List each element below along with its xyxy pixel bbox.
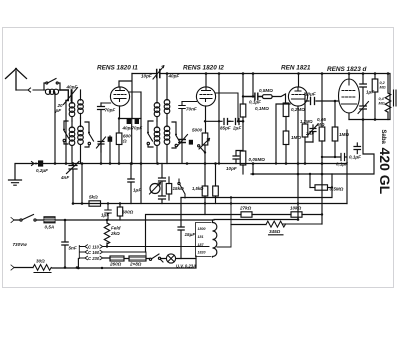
- coil L4a IF primary top: [147, 74, 181, 164]
- resistor R0.05M det: [240, 151, 246, 165]
- capacitor C70pF2: [135, 119, 139, 125]
- transformer T1 winding: [213, 220, 217, 257]
- svg-text:10μF: 10μF: [305, 92, 316, 97]
- svg-text:40pF: 40pF: [66, 84, 78, 89]
- resistor R0.05M screen: [319, 127, 325, 141]
- svg-text:1,5kΩ: 1,5kΩ: [192, 186, 204, 191]
- capacitor C15uF: [178, 227, 184, 259]
- capacitor C10pF: [233, 151, 243, 164]
- svg-text:10pF: 10pF: [226, 166, 237, 171]
- wire lower mid bus right: [181, 174, 332, 198]
- resistor R0.1M det: [240, 104, 246, 117]
- voltage selector: [79, 245, 102, 260]
- svg-text:345Ω: 345Ω: [269, 229, 281, 234]
- potentiometer P5000: [202, 133, 208, 145]
- switch S1 antenna: [44, 79, 60, 91]
- speaker bars: [394, 90, 397, 106]
- resistor R1M 2: [334, 101, 336, 127]
- wire tube3 grid chain: [276, 74, 299, 164]
- resistor Rk1: [204, 164, 206, 187]
- svg-text:1,2MΩ: 1,2MΩ: [300, 119, 313, 124]
- svg-text:2×8Ω: 2×8Ω: [129, 262, 142, 267]
- wire coupling row: [305, 93, 339, 101]
- svg-text:0,1μF: 0,1μF: [336, 162, 348, 167]
- svg-text:0,4: 0,4: [379, 97, 385, 101]
- resistor R600: [116, 133, 122, 145]
- svg-text:0,2: 0,2: [380, 81, 386, 85]
- wire tube2 screen column: [55, 72, 220, 165]
- resistor R0.2M out: [374, 74, 376, 80]
- svg-text:0,5MΩ: 0,5MΩ: [330, 187, 344, 192]
- switch S6 tone: [179, 179, 185, 198]
- svg-text:5000: 5000: [192, 128, 203, 133]
- capacitor 20pF trimmer: [60, 90, 72, 103]
- wire mid right bus: [251, 120, 374, 175]
- resistor R2x8 heater: [129, 256, 146, 261]
- svg-text:1μF: 1μF: [133, 188, 141, 193]
- wire AVC column: [252, 164, 254, 175]
- wire mains top: [14, 219, 298, 222]
- svg-text:0,2μF: 0,2μF: [36, 168, 48, 173]
- wire mains connector top: [11, 218, 14, 223]
- svg-text:1820: 1820: [198, 251, 206, 255]
- transformer T1 labels box: [196, 223, 212, 257]
- svg-text:730Vw: 730Vw: [13, 242, 28, 247]
- svg-text:1800: 1800: [198, 227, 206, 231]
- svg-text:REN 1821: REN 1821: [281, 65, 311, 72]
- wire mains connector bottom: [11, 265, 14, 270]
- svg-text:0,1MΩ: 0,1MΩ: [255, 106, 269, 111]
- junction dots main bus: [54, 72, 307, 269]
- tube U2 RENS1820 II: [196, 87, 215, 106]
- svg-text:260Ω: 260Ω: [109, 262, 122, 267]
- capacitor C1uF afilter: [128, 164, 134, 204]
- wire col181: [180, 198, 182, 228]
- svg-text:0,1μF: 0,1μF: [349, 155, 361, 160]
- capacitor C2uF: [236, 119, 242, 125]
- svg-text:5nF: 5nF: [69, 246, 77, 251]
- resistor R1.2M: [304, 101, 306, 124]
- coil L2b primary bottom: [71, 121, 73, 164]
- capacitor C0.2uF: [38, 160, 43, 166]
- svg-text:85pF: 85pF: [220, 126, 231, 131]
- svg-text:MΩ: MΩ: [380, 86, 386, 90]
- coil L5a IF secondary top: [166, 74, 168, 119]
- svg-text:2μF: 2μF: [232, 126, 241, 131]
- lamp UV: [166, 254, 175, 263]
- svg-text:27kΩ: 27kΩ: [239, 206, 252, 211]
- svg-text:0,5A: 0,5A: [45, 225, 55, 230]
- wire tube1 screen column: [131, 119, 133, 164]
- wire tube1 cathode column: [118, 106, 121, 132]
- fuse F0.5A: [44, 217, 55, 223]
- wire B+ resistor row: [146, 174, 323, 252]
- svg-text:Saba: Saba: [380, 130, 386, 145]
- tube U1 RENS1820 I: [101, 79, 360, 121]
- wire tube4 cathode: [348, 113, 350, 120]
- svg-text:1MΩ: 1MΩ: [291, 135, 301, 140]
- scan page border: [3, 28, 394, 288]
- capacitor C2nF var: [308, 124, 318, 142]
- wire choke row: [231, 224, 266, 226]
- svg-text:30Ω: 30Ω: [36, 259, 45, 264]
- coil L2a RF transformer primary top: [63, 90, 94, 164]
- node det bus: [242, 72, 245, 75]
- resistor R27k: [241, 212, 252, 217]
- svg-text:C 230: C 230: [88, 256, 100, 261]
- coil L3b secondary bottom: [80, 118, 82, 164]
- wire col141 top: [140, 92, 142, 164]
- wire tube2 grid lead: [205, 74, 207, 88]
- svg-text:1MΩ: 1MΩ: [339, 132, 349, 137]
- wire trimmer down: [65, 101, 67, 164]
- capacitor C0.1uF k: [322, 130, 347, 204]
- labels: [97, 65, 368, 74]
- tone control pot: [150, 184, 160, 194]
- svg-text:C 160: C 160: [88, 250, 100, 255]
- capacitor C1uF out: [360, 74, 367, 120]
- svg-text:420 GL: 420 GL: [377, 148, 393, 195]
- wire main ground bus: [16, 163, 347, 165]
- svg-text:pF: pF: [55, 108, 62, 113]
- switch S3 band right: [85, 122, 94, 147]
- svg-text:15kΩ: 15kΩ: [173, 186, 185, 191]
- capacitor C1uF ps: [105, 204, 111, 221]
- capacitor C5nF mains: [62, 220, 68, 268]
- resistor R10k2: [291, 212, 302, 217]
- resistor R5k: [89, 201, 101, 206]
- svg-text:181: 181: [198, 235, 204, 239]
- capacitor C var padder: [97, 137, 106, 152]
- resistor R30 zigzag mains: [33, 265, 51, 273]
- svg-text:RENS 1820 I1: RENS 1820 I1: [97, 65, 138, 72]
- capacitor Ctone2: [159, 196, 166, 204]
- svg-text:MΩ: MΩ: [379, 102, 385, 106]
- svg-text:2nF: 2nF: [305, 131, 314, 136]
- svg-text:5kΩ: 5kΩ: [89, 195, 98, 200]
- capacitor Ctone1: [159, 164, 166, 196]
- capacitor C70pF grid1: [98, 103, 105, 164]
- resistor Feld 2k zigzag: [104, 202, 122, 247]
- capacitor Cvar AVC: [67, 162, 80, 204]
- svg-text:187: 187: [198, 243, 205, 247]
- wire ground lead connector: [32, 162, 35, 166]
- capacitor C var x182: [179, 140, 185, 143]
- svg-text:Ω: Ω: [122, 139, 127, 144]
- svg-text:MΩ: MΩ: [317, 122, 325, 127]
- switch S8 heater: [151, 254, 164, 262]
- capacitor C osc: [108, 137, 113, 142]
- capacitor C0.1uF 2: [354, 143, 361, 154]
- svg-text:U.V. 0,23A: U.V. 0,23A: [176, 264, 196, 269]
- svg-text:0,2MΩ: 0,2MΩ: [291, 107, 305, 112]
- svg-text:70nF: 70nF: [186, 107, 197, 112]
- resistor R1M g3: [283, 131, 289, 145]
- svg-text:40pF: 40pF: [168, 74, 180, 79]
- svg-text:15μF: 15μF: [185, 232, 196, 237]
- switch S4 band: [148, 121, 153, 147]
- svg-text:0,05MΩ: 0,05MΩ: [249, 157, 266, 162]
- capacitor C0.1uF det: [243, 93, 262, 100]
- coil L3a secondary top: [80, 90, 82, 118]
- wire screen column: [321, 74, 323, 128]
- wire output bus bottom: [349, 119, 390, 121]
- svg-text:10kΩ: 10kΩ: [290, 206, 302, 211]
- wire top anode bus: [132, 74, 390, 120]
- coil L1 antenna: [44, 89, 60, 91]
- coil L4b: [156, 121, 158, 164]
- coil L5b: [166, 118, 168, 164]
- wire detector column: [243, 74, 253, 97]
- resistor R260 heater: [110, 256, 124, 261]
- capacitor trimmer 10pF/40pF on bus: [157, 70, 160, 78]
- resistor Rk2: [215, 164, 217, 187]
- wire col141: [140, 164, 142, 204]
- wire mains bottom: [14, 256, 196, 268]
- svg-text:1μF: 1μF: [366, 90, 374, 95]
- mains switch S7: [22, 215, 34, 221]
- capacitor C85pF: [224, 119, 230, 125]
- capacitor C 70nF tube2 grid: [179, 102, 185, 164]
- svg-text:70pF: 70pF: [105, 108, 116, 113]
- svg-text:70pF: 70pF: [132, 126, 143, 131]
- wire tube4 top: [348, 74, 350, 80]
- wire tube2 cathode column: [206, 106, 244, 133]
- svg-text:600Ω: 600Ω: [122, 210, 134, 215]
- svg-text:RENS 1823 d: RENS 1823 d: [327, 66, 368, 73]
- svg-text:4nF: 4nF: [60, 175, 69, 180]
- capacitor C10uF coupling: [311, 98, 315, 105]
- svg-text:C 110: C 110: [88, 244, 100, 249]
- resistor R0.2M g3: [283, 103, 289, 117]
- switch S5 band: [172, 122, 181, 148]
- resistor R0.5M fb: [310, 187, 315, 189]
- ground: [9, 164, 22, 186]
- switch S2 band left: [64, 121, 69, 144]
- wire transformer taps: [103, 198, 231, 259]
- resistor R15k tone: [166, 184, 171, 195]
- svg-text:10pF: 10pF: [141, 74, 152, 79]
- tube U4 RENS1823d: [339, 79, 360, 113]
- svg-text:2kΩ: 2kΩ: [110, 231, 120, 236]
- svg-text:Feld: Feld: [111, 226, 121, 231]
- wire heater row: [103, 257, 196, 260]
- antenna: [6, 69, 27, 91]
- resistor R600 ps: [119, 204, 121, 208]
- wire osc column: [109, 136, 111, 164]
- wire avc2: [81, 164, 83, 204]
- resistor R345 zigzag: [266, 221, 322, 235]
- wire grid lead tube1: [119, 74, 132, 119]
- wire antenna lead: [16, 88, 44, 92]
- tube U3 REN1821: [288, 87, 307, 106]
- resistor R0.4M zigzag: [385, 74, 391, 120]
- wire lower mid bus left: [73, 203, 347, 205]
- capacitor C40pF: [119, 118, 141, 120]
- svg-text:0,5MΩ: 0,5MΩ: [259, 88, 273, 93]
- svg-text:RENS 1820 I2: RENS 1820 I2: [183, 65, 224, 72]
- svg-text:0,1μF: 0,1μF: [249, 100, 261, 105]
- wire tube3 plate column: [297, 106, 299, 220]
